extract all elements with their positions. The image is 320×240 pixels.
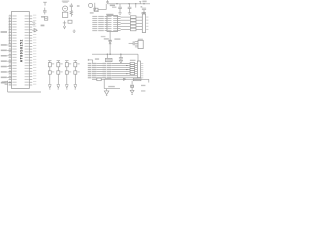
connector J2 body [138,40,143,48]
push button column S1 (pull resistor, switch, ground) [48,61,54,89]
capacitor C5 electrolytic [141,6,147,14]
resistor R1 box [68,20,72,23]
wire rail to connector [137,54,139,61]
wire through R3 [92,78,149,80]
ground (reset cluster) [73,30,76,33]
label above lower wire [108,86,115,87]
resistor R3 box on wire [97,78,101,81]
label right of D2 [114,38,120,39]
component U3 box on wire [133,78,141,81]
label J1 title [141,12,146,13]
IC U1 part number text (vertical) [20,39,24,62]
crystal Y2 cluster [131,81,134,88]
wire U2 bottom pin down [109,32,111,41]
capacitor C3 to ground [118,4,122,14]
J1 pin numbers [146,17,148,30]
wire along bottom [8,91,41,93]
VCC arrow symbol [106,1,108,4]
wire corner above block [88,59,93,63]
label above wire [105,78,112,79]
U2 left pins with net labels [92,16,111,31]
label below right [141,90,145,91]
connector J3 body [137,61,140,78]
resistor R2 box on rail drop [105,54,112,61]
capacitor C4 to ground [128,4,132,14]
net label (right of U1) [41,25,45,27]
VCC power flag [43,2,47,5]
IC U1 body (40-pin microcontroller) [12,12,30,89]
net label RESET (left of U1) [1,31,7,33]
label U2 title [106,14,113,15]
label U2 part number (below box) [101,36,106,37]
wire VCC rail [108,3,151,5]
diode D2 [109,40,112,54]
ground symbol GND2 [130,88,134,95]
label J2 title [138,39,143,40]
U1 right pins with pin numbers and labels [25,15,37,86]
label right of Y2 [141,85,145,86]
diode D1 with arrow [63,21,66,29]
J3 pin numbers [141,63,143,78]
wire with down arrow [94,3,96,11]
component B1 circle [89,3,93,7]
power flag at rail right end [139,2,141,4]
IC U2 body [107,16,118,32]
wire bracket bottom left [5,81,8,92]
capacitor C7 and ground [119,54,123,63]
push button column S4 (pull resistor, switch, ground) [74,61,80,89]
label C6 [90,12,94,13]
net arrow flag (right of U1) [34,29,37,32]
wires rows 7-8 to connector [130,76,137,78]
label above block [95,58,99,60]
capacitor C8 bars [129,41,135,45]
crystal Y1 symbol [44,17,47,20]
U1 left pins with pin numbers and labels [9,15,17,86]
capacitor C1 [43,8,47,15]
wire U1 pin extension [32,22,35,25]
oscillator X1 circle [63,6,68,11]
wire down to lower rail [104,79,120,88]
junction dots on VCC rail [116,3,144,4]
svg-text:AT89S8252: AT89S8252 [20,39,24,62]
capacitor C6 electrolytic horizontal [94,7,98,11]
net labels column 2 with wires [103,63,131,78]
wire right end corner [148,79,150,82]
resistor network RN1 with wires [121,16,143,31]
push button column S3 (pull resistor, switch, ground) [65,61,71,89]
label C1 value [41,16,45,18]
label C2 [77,5,80,7]
inductor/zigzag below C2 [70,7,72,17]
wire U1 pin to net arrow [32,29,34,31]
label oscillator [62,1,69,3]
oscillator X1 body box [62,12,67,17]
label near B1 [96,11,99,12]
junction dots in block [126,65,127,74]
resistor network RN2 [130,62,137,74]
J2 left pins [135,42,138,47]
net arrow on wire [124,78,126,80]
net label bottom left [2,81,5,82]
U2 right pins [113,16,120,31]
connector J1 body [142,14,145,33]
junction dots on rail [107,54,122,55]
wire left bus to U1 upper pins [8,17,10,43]
label left of D2 [104,38,109,39]
capacitor C2 plates [70,3,73,6]
push button column S2 (pull resistor, switch, ground) [57,61,63,89]
label at rail right end [142,1,146,3]
wire C6 to rail [98,4,106,10]
label VCC [110,5,117,8]
net labels column 1 with wires [88,63,103,78]
net labels on left edge with wires to U1 [1,44,12,83]
wire stub down from rail [135,4,137,8]
wire horizontal rail [92,53,138,55]
ground symbol GND1 [104,89,109,96]
ground tick under arrow [94,10,96,12]
label RN2 title [130,60,136,61]
